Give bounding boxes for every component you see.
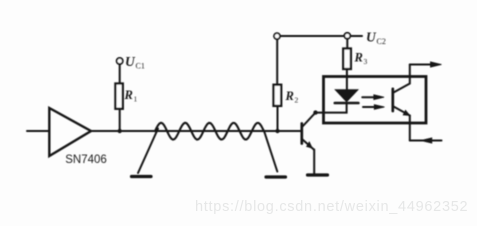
svg-text:U: U bbox=[366, 30, 377, 45]
optocoupler U2 box bbox=[324, 77, 427, 124]
junction dot collector node bbox=[313, 110, 317, 114]
wire left shield diagonal to ground bbox=[138, 129, 158, 173]
light arrow (bottom) bbox=[363, 106, 377, 108]
resistor R3 bbox=[343, 49, 351, 70]
phototransistor emitter with arrow bbox=[394, 107, 410, 116]
resistor R2 bbox=[274, 85, 282, 106]
LED D1 (triangle + cathode bar) bbox=[336, 90, 358, 101]
svg-text:SN7406: SN7406 bbox=[65, 154, 107, 166]
wire collector output with arrow bbox=[410, 64, 436, 66]
phototransistor collector bbox=[394, 65, 410, 93]
light arrow (top) bbox=[362, 96, 376, 98]
svg-text:U: U bbox=[125, 54, 136, 69]
label R3 bbox=[354, 51, 368, 67]
wire terminal to R3 bbox=[346, 39, 348, 49]
ground (Q1 emitter) bbox=[308, 173, 328, 176]
wire terminal to UC2 label bbox=[350, 35, 362, 37]
svg-text:3: 3 bbox=[364, 57, 368, 66]
transistor Q1 collector bbox=[303, 113, 316, 127]
svg-text:R: R bbox=[285, 89, 294, 103]
node UC1 terminal circle bbox=[117, 58, 123, 64]
wire input to inverter bbox=[27, 130, 49, 132]
node terminal circle (left, top rail) bbox=[274, 33, 280, 39]
transistor Q1 base bar bbox=[300, 124, 303, 144]
wire R2 up to terminal bbox=[276, 39, 278, 84]
wire UC1 to R1 bbox=[119, 64, 121, 83]
wire R1 to main line bbox=[119, 109, 121, 131]
wire R3 into optocoupler to LED anode bbox=[346, 69, 348, 90]
svg-text:2: 2 bbox=[295, 96, 299, 105]
transistor Q1 emitter with arrow bbox=[303, 140, 314, 150]
svg-text:C2: C2 bbox=[377, 37, 386, 46]
wire emitter output with arrow bbox=[410, 140, 442, 142]
label R1 bbox=[124, 88, 138, 104]
junction dot R1/main bbox=[118, 129, 122, 133]
svg-text:R: R bbox=[354, 51, 363, 65]
junction dot R2/main bbox=[275, 129, 279, 133]
op-amp U1 SN7406 inverter triangle bbox=[49, 108, 91, 156]
node UC2 terminal circle bbox=[344, 33, 350, 39]
wire top rail between terminals bbox=[280, 35, 344, 37]
ground (right of coil) bbox=[266, 175, 286, 178]
svg-text:C1: C1 bbox=[136, 62, 145, 71]
svg-text:1: 1 bbox=[134, 95, 138, 104]
label UC1 bbox=[125, 54, 145, 71]
label UC2 bbox=[366, 30, 386, 47]
label R2 bbox=[285, 89, 299, 105]
phototransistor base bar bbox=[391, 89, 394, 111]
wire right shield diagonal to ground bbox=[264, 132, 277, 172]
twisted-pair coil (sine conductor) bbox=[155, 123, 264, 140]
ground (left) bbox=[132, 175, 152, 178]
watermark bbox=[195, 199, 475, 215]
wire main line from inverter output to transistor base bbox=[91, 130, 301, 132]
resistor R1 bbox=[115, 84, 122, 109]
svg-text:R: R bbox=[124, 88, 133, 102]
wire LED cathode out of box to collector node bbox=[316, 104, 347, 113]
wire R2 to main line bbox=[277, 106, 279, 131]
